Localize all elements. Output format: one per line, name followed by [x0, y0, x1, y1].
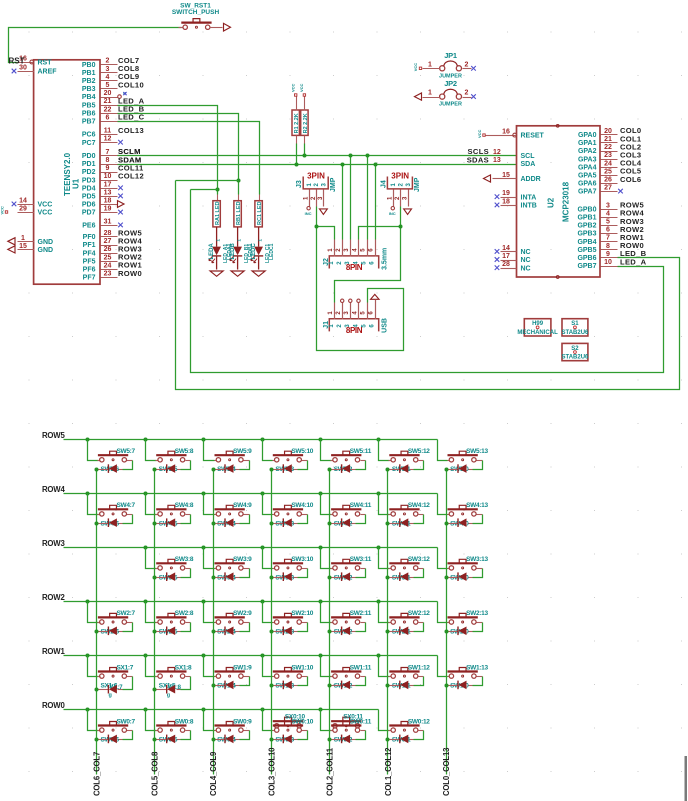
svg-text:COL3_COL10: COL3_COL10	[267, 747, 276, 796]
svg-text:PF4: PF4	[83, 250, 96, 257]
svg-text:U1: U1	[72, 178, 81, 189]
svg-text:PF1: PF1	[83, 242, 96, 249]
svg-text:PB5: PB5	[82, 102, 96, 109]
svg-text:SW4:13: SW4:13	[466, 502, 488, 509]
svg-text:18: 18	[104, 198, 112, 205]
svg-text:GPB3: GPB3	[577, 231, 596, 238]
svg-text:SW2:8: SW2:8	[175, 610, 194, 617]
svg-text:R1 2.2K: R1 2.2K	[294, 113, 300, 133]
svg-text:JUMPER: JUMPER	[439, 102, 462, 108]
svg-text:SW0:7: SW0:7	[117, 718, 136, 725]
svg-text:SW0:12: SW0:12	[408, 718, 430, 725]
svg-text:3.5mm: 3.5mm	[382, 248, 389, 270]
svg-text:SW5:10: SW5:10	[291, 448, 313, 455]
svg-text:RESET: RESET	[521, 133, 545, 140]
svg-text:27: 27	[104, 238, 112, 245]
svg-text:NC: NC	[521, 265, 531, 272]
svg-text:GPA3: GPA3	[578, 156, 597, 163]
svg-text:J1: J1	[323, 321, 330, 329]
svg-text:SW3:11: SW3:11	[350, 556, 372, 563]
svg-text:SW5:7: SW5:7	[117, 448, 136, 455]
svg-text:3PIN: 3PIN	[307, 172, 325, 181]
svg-text:SW5:12: SW5:12	[408, 448, 430, 455]
svg-text:1: 1	[428, 90, 432, 97]
svg-text:2: 2	[465, 90, 469, 97]
svg-text:SX1:8: SX1:8	[175, 664, 192, 671]
svg-text:COL10: COL10	[118, 80, 144, 89]
svg-text:SW5:13: SW5:13	[466, 448, 488, 455]
svg-text:SX0:11: SX0:11	[343, 714, 363, 721]
svg-text:9: 9	[106, 165, 110, 172]
svg-text:12: 12	[493, 149, 501, 156]
svg-text:ROW2: ROW2	[42, 593, 65, 602]
svg-text:19: 19	[502, 190, 510, 197]
svg-text:J4: J4	[380, 180, 387, 188]
svg-text:PC6: PC6	[82, 132, 96, 139]
svg-text:SW1:13: SW1:13	[466, 664, 488, 671]
svg-text:SW3:10: SW3:10	[291, 556, 313, 563]
svg-text:COL6_COL7: COL6_COL7	[92, 752, 101, 796]
svg-text:PB2: PB2	[82, 78, 96, 85]
svg-text:23: 23	[104, 271, 112, 278]
svg-text:27: 27	[604, 185, 612, 192]
svg-text:COL2_COL11: COL2_COL11	[326, 747, 335, 796]
svg-text:24: 24	[604, 160, 612, 167]
svg-text:15: 15	[502, 172, 510, 179]
svg-text:g: g	[167, 692, 170, 698]
svg-text:GPB7: GPB7	[577, 263, 596, 270]
svg-text:1: 1	[21, 235, 25, 242]
svg-text:13: 13	[493, 157, 501, 164]
svg-text:PF6: PF6	[83, 267, 96, 274]
svg-text:SW4:12: SW4:12	[408, 502, 430, 509]
svg-text:SX0:10: SX0:10	[285, 714, 306, 721]
svg-text:SCL: SCL	[521, 153, 536, 160]
svg-text:SW0:9: SW0:9	[233, 718, 252, 725]
svg-text:SW1:11: SW1:11	[350, 664, 372, 671]
svg-text:SX1:7: SX1:7	[117, 664, 134, 671]
svg-text:PE6: PE6	[82, 223, 95, 230]
svg-text:29: 29	[19, 206, 27, 213]
svg-text:GPA2: GPA2	[578, 148, 597, 155]
svg-text:22: 22	[604, 144, 612, 151]
svg-text:PD1: PD1	[82, 161, 96, 168]
svg-text:SW1:12: SW1:12	[408, 664, 430, 671]
svg-text:SW4:10: SW4:10	[291, 502, 313, 509]
svg-text:SW1:10: SW1:10	[291, 664, 313, 671]
svg-text:5: 5	[606, 219, 610, 226]
svg-text:20: 20	[104, 90, 112, 97]
svg-text:6: 6	[106, 114, 110, 121]
svg-text:5: 5	[106, 82, 110, 89]
svg-text:25: 25	[104, 254, 112, 261]
svg-text:11: 11	[104, 128, 112, 135]
svg-text:14: 14	[502, 245, 510, 252]
svg-text:RB1 LED: RB1 LED	[236, 201, 242, 225]
svg-text:8PIN: 8PIN	[346, 326, 363, 335]
svg-text:PC7: PC7	[82, 140, 96, 147]
svg-text:PB1: PB1	[82, 70, 96, 77]
svg-text:USB: USB	[382, 318, 389, 333]
svg-text:21: 21	[104, 98, 112, 105]
svg-text:COL6: COL6	[620, 175, 641, 184]
svg-text:3: 3	[606, 202, 610, 209]
svg-text:20: 20	[604, 128, 612, 135]
svg-text:18: 18	[502, 198, 510, 205]
svg-text:RA1 LED: RA1 LED	[215, 201, 221, 225]
svg-text:ROW0: ROW0	[42, 701, 65, 710]
svg-text:GPA5: GPA5	[578, 173, 597, 180]
svg-text:SW3:13: SW3:13	[466, 556, 488, 563]
svg-text:1: 1	[428, 61, 432, 68]
svg-text:SW2:7: SW2:7	[117, 610, 136, 617]
svg-text:GPA4: GPA4	[578, 164, 597, 171]
svg-text:PB3: PB3	[82, 86, 96, 93]
svg-text:7: 7	[106, 149, 110, 156]
svg-text:GPB5: GPB5	[577, 247, 596, 254]
svg-text:PD3: PD3	[82, 177, 96, 184]
svg-text:10: 10	[104, 173, 112, 180]
svg-text:MCP23018: MCP23018	[562, 181, 571, 222]
svg-text:SW3:8: SW3:8	[175, 556, 194, 563]
svg-text:SW5:9: SW5:9	[233, 448, 252, 455]
svg-text:PD4: PD4	[82, 185, 96, 192]
svg-text:14: 14	[19, 197, 27, 204]
svg-text:GPA0: GPA0	[578, 132, 597, 139]
svg-text:SW4:7: SW4:7	[117, 502, 136, 509]
svg-text:PD5: PD5	[82, 194, 96, 201]
svg-text:R2 2.2K: R2 2.2K	[303, 113, 309, 133]
svg-text:PF7: PF7	[83, 275, 96, 282]
svg-text:LEDA: LEDA	[209, 243, 215, 260]
svg-text:RST: RST	[38, 60, 53, 67]
svg-text:28: 28	[502, 261, 510, 268]
svg-text:INTA: INTA	[521, 194, 537, 201]
svg-text:LED_A: LED_A	[620, 257, 647, 266]
svg-text:16: 16	[502, 129, 510, 136]
svg-text:19: 19	[104, 206, 112, 213]
svg-text:LEDC1: LEDC1	[269, 243, 275, 260]
svg-text:25: 25	[604, 168, 612, 175]
svg-text:ADDR: ADDR	[521, 176, 541, 183]
svg-text:6: 6	[606, 227, 610, 234]
svg-text:GND: GND	[38, 247, 54, 254]
svg-text:31: 31	[104, 218, 112, 225]
svg-text:J2: J2	[323, 258, 330, 266]
svg-text:LEDB: LEDB	[230, 243, 236, 260]
svg-text:30: 30	[19, 65, 27, 72]
svg-text:GPA6: GPA6	[578, 181, 597, 188]
svg-text:COL5_COL8: COL5_COL8	[151, 751, 160, 796]
svg-text:GPA1: GPA1	[578, 140, 597, 147]
svg-text:PF0: PF0	[83, 234, 96, 241]
svg-text:PB0: PB0	[82, 62, 96, 69]
svg-text:23: 23	[604, 152, 612, 159]
svg-text:PD6: PD6	[82, 202, 96, 209]
svg-text:RC1 LED: RC1 LED	[257, 201, 263, 225]
svg-text:21: 21	[604, 136, 612, 143]
svg-text:STAB2U6: STAB2U6	[561, 330, 589, 336]
svg-text:INTB: INTB	[521, 203, 537, 210]
svg-text:24: 24	[104, 262, 112, 269]
svg-text:JMP: JMP	[330, 177, 337, 192]
svg-text:SW3:9: SW3:9	[233, 556, 252, 563]
svg-text:PF5: PF5	[83, 258, 96, 265]
svg-text:SW4:11: SW4:11	[350, 502, 372, 509]
svg-text:SW0:8: SW0:8	[175, 718, 194, 725]
svg-text:ROW1: ROW1	[42, 647, 65, 656]
svg-text:GPA7: GPA7	[578, 189, 597, 196]
svg-text:7: 7	[606, 235, 610, 242]
svg-text:COL12: COL12	[118, 172, 144, 181]
svg-text:10: 10	[604, 259, 612, 266]
svg-text:VCC: VCC	[291, 83, 296, 92]
svg-text:26: 26	[104, 246, 112, 253]
svg-text:LEDC: LEDC	[251, 243, 257, 260]
svg-text:ROW3: ROW3	[42, 539, 65, 548]
svg-text:8: 8	[106, 157, 110, 164]
svg-text:28: 28	[104, 230, 112, 237]
svg-text:SWITCH_PUSH: SWITCH_PUSH	[172, 9, 220, 16]
svg-text:PD7: PD7	[82, 210, 96, 217]
svg-text:13: 13	[104, 189, 112, 196]
svg-text:8PIN: 8PIN	[346, 263, 363, 272]
svg-text:4: 4	[106, 74, 110, 81]
svg-text:VCC: VCC	[0, 206, 5, 215]
svg-text:22: 22	[104, 106, 112, 113]
svg-text:VCC: VCC	[38, 210, 53, 217]
svg-text:2: 2	[465, 61, 469, 68]
svg-text:26: 26	[604, 177, 612, 184]
svg-text:STAB2U6: STAB2U6	[561, 355, 589, 361]
svg-text:ROW0: ROW0	[118, 269, 142, 278]
svg-text:VCC: VCC	[299, 83, 304, 92]
svg-text:AREF: AREF	[38, 69, 58, 76]
svg-text:2: 2	[106, 58, 110, 65]
svg-text:VCC: VCC	[477, 129, 482, 138]
svg-text:SW5:8: SW5:8	[175, 448, 194, 455]
svg-text:GPB2: GPB2	[577, 223, 596, 230]
svg-text:COL1_COL12: COL1_COL12	[384, 747, 393, 796]
svg-text:JMP: JMP	[414, 177, 421, 192]
svg-text:12: 12	[104, 136, 112, 143]
svg-text:SDAM: SDAM	[118, 155, 142, 164]
svg-text:PD0: PD0	[82, 153, 96, 160]
svg-text:COL4_COL9: COL4_COL9	[209, 751, 218, 796]
svg-text:g: g	[109, 692, 112, 698]
svg-text:SDAS: SDAS	[467, 155, 489, 164]
svg-text:COL13: COL13	[118, 126, 144, 135]
svg-text:4: 4	[606, 210, 610, 217]
svg-text:SW2:9: SW2:9	[233, 610, 252, 617]
svg-text:VCC: VCC	[38, 202, 53, 209]
svg-text:PB7: PB7	[82, 119, 96, 126]
svg-text:JP2: JP2	[444, 79, 457, 88]
svg-text:SW2:12: SW2:12	[408, 610, 430, 617]
svg-text:ROW4: ROW4	[42, 485, 65, 494]
svg-text:17: 17	[104, 181, 112, 188]
svg-text:NC: NC	[521, 257, 531, 264]
svg-text:SW4:9: SW4:9	[233, 502, 252, 509]
svg-text:8: 8	[606, 243, 610, 250]
svg-text:J3: J3	[296, 180, 303, 188]
svg-text:SW4:8: SW4:8	[175, 502, 194, 509]
svg-text:GND: GND	[38, 239, 54, 246]
svg-text:GPB1: GPB1	[577, 215, 596, 222]
svg-text:SW2:11: SW2:11	[350, 610, 372, 617]
svg-text:3: 3	[106, 66, 110, 73]
svg-text:COL0_COL13: COL0_COL13	[442, 747, 451, 796]
svg-text:17: 17	[502, 253, 510, 260]
svg-text:SW5:11: SW5:11	[350, 448, 372, 455]
svg-text:NC: NC	[521, 249, 531, 256]
svg-text:SW3:12: SW3:12	[408, 556, 430, 563]
svg-text:SW1:9: SW1:9	[233, 664, 252, 671]
svg-text:SW2:10: SW2:10	[291, 610, 313, 617]
svg-text:GPB4: GPB4	[577, 239, 596, 246]
svg-text:SDA: SDA	[521, 161, 536, 168]
svg-text:MECHANICAL: MECHANICAL	[517, 330, 558, 336]
svg-text:GPB6: GPB6	[577, 255, 596, 262]
svg-text:3PIN: 3PIN	[391, 172, 409, 181]
svg-text:JP1: JP1	[444, 51, 457, 60]
svg-text:U2: U2	[547, 197, 556, 208]
svg-text:PB6: PB6	[82, 110, 96, 117]
svg-text:PD2: PD2	[82, 169, 96, 176]
svg-text:INC: INC	[389, 211, 396, 216]
svg-text:VCC: VCC	[413, 63, 418, 72]
svg-text:PB4: PB4	[82, 94, 96, 101]
svg-text:SW2:13: SW2:13	[466, 610, 488, 617]
svg-text:INC: INC	[305, 211, 312, 216]
svg-text:GPB0: GPB0	[577, 206, 596, 213]
svg-text:9: 9	[606, 251, 610, 258]
svg-text:ROW5: ROW5	[42, 431, 65, 440]
svg-text:15: 15	[19, 243, 27, 250]
